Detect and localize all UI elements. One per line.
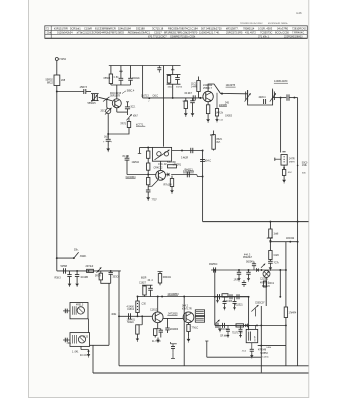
svg-text:R443C1: R443C1 [185,169,194,171]
TR1 coil circle right [164,152,168,156]
wire TS1 emitter down [116,108,118,112]
stub left of TR1 [139,148,141,154]
svg-text:1034R833: 1034R833 [167,293,179,296]
IF transformer TR2 primary coil [247,90,249,102]
svg-text:R38.3: R38.3 [55,278,62,280]
wire R18 to C20 [147,185,149,190]
header table outer border [45,26,308,39]
diode D1 at TS3 [166,174,167,176]
svg-text:k54.C: k54.C [205,161,211,163]
resistor R23 on det [213,267,215,272]
wire rail drop to decoupler [172,66,174,70]
svg-text:C088R0373131k.C02k: C088R0373131k.C02k [170,36,196,39]
wire R32 C37 top join [142,284,153,286]
svg-text:00.Rk7: 00.Rk7 [185,93,193,95]
wire plus tap horizontal [270,241,297,243]
wire R15 R16 [147,158,149,163]
svg-text:R3k55C: R3k55C [209,264,218,266]
svg-text:.15R73: .15R73 [79,86,88,89]
resistor R27 [284,307,287,318]
wire bias string top [147,148,149,152]
ground below C11 [192,111,194,113]
wire D6 stub [255,309,257,317]
svg-text:144R: 144R [191,87,197,89]
svg-text:015C4: 015C4 [127,309,134,311]
wire R34 link [137,324,142,326]
capacitor C8 [177,75,179,78]
resistor R25 [236,324,244,327]
svg-text:77k1C: 77k1C [192,328,199,330]
wire R10 stubs [198,92,200,98]
wire x119 down to bus1 [118,312,120,366]
svg-text:C505C07: C505C07 [255,303,265,305]
svg-text:882R: 882R [141,278,147,280]
svg-text:C1827: C1827 [139,282,147,284]
wire AF line horizontal [138,296,249,298]
wire out chain2 [215,324,257,326]
svg-text:3C2.: 3C2. [131,107,136,109]
svg-text:082340: 082340 [246,262,254,264]
svg-text:.300k: .300k [111,314,117,316]
wire R31 down [101,280,111,283]
capacitor C17 [125,157,130,159]
ground drop chain1 a [217,297,219,299]
wire TS1 collector up [116,85,118,99]
junction osc ground node [88,350,90,352]
wire TR1 out to bus [172,150,203,152]
junction chain2 end [256,324,258,326]
wire out link down [285,346,287,366]
G1 inner circle [77,307,84,314]
svg-text:C.54: C.54 [114,77,120,79]
junction TS4 base [141,315,143,317]
junction decoupler base [172,97,174,99]
wire R36 ground [188,332,190,337]
svg-text:.832R.: .832R. [80,256,87,258]
wire G2 bottom stub [80,346,82,349]
capacitor C24 [217,294,219,299]
switch S1 blade [74,252,79,258]
wire detector bus vertical [297,98,299,366]
ground below R11 [185,111,187,113]
resistor R11 [184,101,187,109]
svg-text:524k25184: 524k25184 [118,27,131,31]
junction AF 2 [183,296,185,298]
resistor R17 horizontal [168,165,177,168]
header table left column divider [50,26,52,39]
wire R1 bottom [110,84,112,86]
capacitor C28 [222,323,224,328]
svg-text:.R.447: .R.447 [266,238,274,240]
wire mid supply bus horizontal [203,221,309,223]
boxed label right of TS5 1 [195,310,204,316]
capacitor C28b drop [227,325,229,329]
svg-text:C1812: C1812 [150,309,158,312]
wire feed down to R27 [285,270,287,307]
junction emitter return [107,133,109,135]
capacitor C7 electrolytic [106,138,111,140]
svg-text:kC771.: kC771. [136,123,144,126]
svg-text:53CC5R: 53CC5R [167,162,176,164]
svg-text:OUTP: OUTP [255,335,257,341]
junction driver feed [269,240,271,242]
svg-text:72810RC42: 72810RC42 [292,27,306,31]
wire TS4 to TS5 [163,317,183,319]
ground below R19 [171,188,173,190]
capacitor C31 [69,271,71,275]
svg-text:5135: 5135 [83,337,89,339]
wire TS2 collector to IF2 [208,84,248,94]
svg-text:C22531: C22531 [260,279,269,281]
wire chain1 down [248,297,250,331]
wire decoupler top join [167,74,181,76]
junction det out [261,269,263,271]
capacitor C20 [146,189,151,191]
wire J1 to fuse [56,61,58,75]
svg-text:.R035kkkk103kRC1: .R035kkkk103kRC1 [127,31,150,35]
wire out chain1 [215,296,249,298]
svg-text:7517C748: 7517C748 [232,333,243,335]
resistor R8 [127,122,130,128]
svg-text:0k25CC12: 0k25CC12 [218,329,229,331]
capacitor C37 [150,285,152,288]
ground below R14 [283,178,285,180]
diode D6 [251,305,258,312]
resistor R10 [197,81,200,92]
boxed label right of TS5 2 [195,316,204,322]
capacitor C42 top [242,282,246,284]
wire TS3 collector [160,161,162,170]
wire antenna branch horizontal [57,91,84,93]
wire rail drop to C4 [120,66,122,79]
wire TS4 base line [119,315,152,317]
ground below C32 [76,282,78,284]
capacitor C38 [128,313,130,319]
wire TS3 out right [197,175,203,177]
transistor TS3 [156,170,166,180]
resistor R32 [144,284,146,287]
resistor R33 over AF [158,274,161,284]
resistor R31 [100,271,102,273]
svg-text:870.771C1C0C7: 870.771C1C0C7 [148,36,167,39]
wire pot down [107,114,109,140]
capacitor C30 [63,268,65,273]
capacitor C16 on bus [200,159,205,161]
capacitor C28c drop [240,325,242,329]
wire rail drop to R1 [110,66,112,75]
wire osc down to bus2 [92,345,94,373]
svg-text:.3C1RR: .3C1RR [80,277,89,279]
wire G1 link down [88,319,90,333]
wire driver feed vertical [269,222,271,229]
svg-text:8k7.: 8k7. [217,142,222,144]
wire TR2 tap down [280,98,282,153]
resistor R20 [269,229,272,238]
svg-text:7.RR404C.: 7.RR404C. [292,31,305,35]
junction AF 1 [161,296,163,298]
capacitor C26b drop [234,297,236,302]
svg-text:C14Ck: C14Ck [262,356,270,358]
wire speaker down [260,306,262,372]
wire chain corner down 1 [118,271,120,312]
svg-text:8CCk.CC50: 8CCk.CC50 [275,31,289,35]
svg-text:.5472835: .5472835 [167,313,178,316]
header table row divider 1 [45,29,308,31]
resistor R38 bias [136,301,139,313]
volume wiper arm [275,158,281,160]
resistor R35 [154,329,157,336]
wire G2 out bottom [89,345,92,346]
svg-text:5C02k: 5C02k [133,77,141,80]
svg-text:7757: 7757 [152,200,158,202]
ground below C29 [251,353,253,355]
wire TS4 bias feed [137,297,139,302]
svg-text:1kk8: 1kk8 [274,234,280,236]
diode D2 chain [97,267,102,273]
junction chain R30 [97,270,99,272]
svg-text:04.k37R0: 04.k37R0 [277,27,289,31]
resistor R36 [187,325,190,332]
capacitor C12 collector [216,93,218,109]
wire AF down mid [183,297,185,366]
resistor R6 [168,75,170,76]
wire C4 bottom [120,80,122,85]
capacitor C25 [229,294,231,299]
wire tuned circuit to TS1 base [99,97,107,99]
svg-text:43..4: 43..4 [148,280,154,282]
junction node C19 [148,97,150,99]
svg-text:13k534: 13k534 [132,162,140,164]
svg-text:33724: 33724 [176,86,183,88]
svg-text:3C715.18: 3C715.18 [152,27,164,31]
svg-text:14R.2k: 14R.2k [216,113,224,115]
resistor R24 [222,294,228,297]
svg-text:8523.: 8523. [217,139,223,141]
svg-text:4C.CC: 4C.CC [80,355,87,357]
ground below C12 [216,117,218,119]
capacitor C25b drop [224,297,226,302]
capacitor C41 [167,318,169,328]
svg-text:7C55573C: 7C55573C [260,31,273,35]
wire R8 return [108,128,129,135]
wire R12 ground [207,114,209,117]
svg-text:kR2R03: kR2R03 [170,329,179,331]
svg-text:7R75: 7R75 [120,123,126,125]
ground below R12 [207,117,209,119]
svg-text:1R3432: 1R3432 [286,238,295,240]
output transformer box [246,329,258,342]
resistor R30 [87,269,94,272]
svg-text:1..041: 1..041 [72,352,79,354]
svg-text:8R22: 8R22 [47,81,53,84]
svg-text:k7k717R: k7k717R [182,308,192,311]
svg-text:02240R4: 02240R4 [126,176,137,179]
wire det line horizontal [211,269,286,271]
svg-text:4R01.5: 4R01.5 [76,305,84,307]
capacitor C4 [119,77,124,79]
svg-text:532188: 532188 [136,27,145,31]
IF transformer TR1 box [152,147,171,161]
wire TS2 bus vertical [202,151,204,222]
wire TS2 emitter [207,102,209,105]
junction chain C31 [76,270,78,272]
wire TS5 emitter [188,323,190,325]
fuse F1 [54,75,60,86]
capacitor C11 [192,98,194,101]
transistor TS1 [112,99,121,108]
wire bottom bus 2 horizontal [93,372,309,374]
header table row divider 2 [45,33,308,35]
diode D3 vertical [172,344,174,347]
oscillator can G1 box [70,303,88,319]
capacitor C23b [248,270,250,272]
wire bottom bus 1 horizontal [119,365,309,367]
svg-text:..301: ..301 [66,343,72,345]
wire chain2 extension [257,324,286,326]
wire TS6 down [265,277,267,306]
svg-text:4R2C4: 4R2C4 [259,97,267,99]
svg-text:CR4C72: CR4C72 [154,167,164,169]
ground below C7 [107,146,109,148]
svg-text:.1R.k: .1R.k [233,280,239,282]
wire C5 bottom [130,80,132,85]
wire AGC horizontal [143,97,164,99]
ground below TS4 emitter [157,338,159,340]
junction box feed [88,270,90,272]
svg-text:C0217: C0217 [154,31,162,35]
capacitor C13 in TR2 [263,99,265,104]
oscillator can G2 box [70,333,90,347]
svg-text:00C1: 00C1 [269,283,275,285]
capacitor C21 [269,260,271,262]
svg-text:52558: 52558 [61,266,68,268]
G1 inner bars [71,306,73,315]
resistor R19 [171,176,173,179]
wire R14 ground [283,175,285,177]
ground below C31 [69,282,71,284]
svg-text:5CR1kk1: 5CR1kk1 [70,27,81,31]
wire C7 to ground [107,141,109,146]
svg-text:CR.kkk: CR.kkk [220,336,228,338]
svg-text:3k12321: 3k12321 [234,305,243,307]
svg-text:25RC572.5R5: 25RC572.5R5 [226,31,243,35]
svg-text:3.4k2R: 3.4k2R [181,158,189,160]
svg-text:.C30: .C30 [141,303,147,305]
svg-text:C15kR: C15kR [84,27,92,31]
svg-text:53k..: 53k.. [74,250,79,252]
svg-text:.Ckk: .Ckk [46,31,52,35]
resistor R1 [109,74,112,84]
junction TS2 collector node [221,93,223,95]
wire rail drop to AGC line [142,66,144,98]
svg-text:20C.: 20C. [101,111,106,113]
svg-text:kR315877.: kR315877. [226,27,239,31]
svg-text:0120k542k54: 0120k542k54 [57,31,73,35]
svg-text:41.7C00: 41.7C00 [152,341,161,343]
svg-text:431.4572: 431.4572 [245,31,256,35]
wire base line TS1-TS2 [164,97,204,99]
G2 inner bars [72,335,74,344]
diode D5 diagonal [261,264,265,268]
volume control box [281,155,287,166]
svg-text:0.31R..4383: 0.31R..4383 [258,27,273,31]
switch S1 feed [57,257,74,259]
transistor TS6 small [263,270,270,277]
resistor R21 [269,251,272,260]
capacitor C23 [253,266,255,270]
tuned circuit L1 C2 [92,94,94,101]
capacitor C18 [186,172,188,178]
wire left supply bus vertical [56,86,58,271]
diode AGC arrow [127,114,132,120]
wire TS3 emitter diagonal [148,180,158,187]
resistor R18 [147,178,150,185]
diode D4 [257,268,259,272]
capacitor C22 [238,270,240,272]
ground below C22 [238,276,240,278]
svg-text:208: 208 [61,79,66,82]
svg-text:444..3: 444..3 [244,254,251,256]
svg-text:C4k5: C4k5 [274,255,280,257]
svg-text:723553: 723553 [260,353,268,355]
svg-text:17k4R4: 17k4R4 [289,312,298,314]
svg-text:47R048: 47R048 [258,349,267,351]
svg-text:1k0713: 1k0713 [141,95,149,97]
svg-text:.k73kC2122C3CR08244R2k578872.5: .k73kC2122C3CR08244R2k578872.5833 [76,31,124,35]
wire C20 gnd [147,192,149,195]
svg-text:585C.4: 585C.4 [127,91,135,93]
capacitor C14 [286,94,288,100]
terminal J1 [55,58,58,61]
svg-text:72552RR.315.2kCCR4C: 72552RR.315.2kCCR4C [240,23,263,25]
wire lower chain horizontal [57,270,121,272]
svg-text:78080114: 78080114 [243,27,255,31]
wire TS3 base line [127,174,156,176]
capacitor C34 left of G1 [63,310,70,312]
wire base string lower [147,175,149,178]
svg-text:R8C035k708074C2.C184: R8C035k708074C2.C184 [168,27,198,31]
svg-text:Ck1C: Ck1C [153,95,159,97]
wire det down [214,270,216,325]
resistor R26 cluster [263,281,266,287]
wire feed TR1 left [140,147,153,149]
capacitor C5 [128,77,133,79]
resistor R15 [147,151,150,158]
svg-text:504kC: 504kC [127,322,134,324]
test point plus decoupler [172,68,174,71]
junction node antenna tap [56,91,58,93]
output transformer coil [248,332,250,341]
wire R16 base [147,170,149,174]
ground below bias string [147,195,149,197]
transistor TS2 [203,91,213,101]
wire base to trimmer [106,99,108,107]
transistor TS4 [152,312,163,323]
wire decoupler to base line [172,84,174,98]
svg-text:555015: 555015 [88,102,97,105]
svg-text:4RRR: 4RRR [289,161,295,163]
G2 inner circle [78,336,85,343]
svg-text:1100004121.7.40.: 1100004121.7.40. [199,31,220,35]
capacitor C32 [76,271,78,275]
resistor R13 [212,135,215,150]
wire R38 to base [137,313,139,317]
svg-text:C4053: C4053 [225,116,233,118]
capacitor C40 [160,329,162,331]
wire TS4 emitter [157,323,159,329]
svg-text:2371k0: 2371k0 [86,266,94,268]
wire tap down right [285,242,287,270]
